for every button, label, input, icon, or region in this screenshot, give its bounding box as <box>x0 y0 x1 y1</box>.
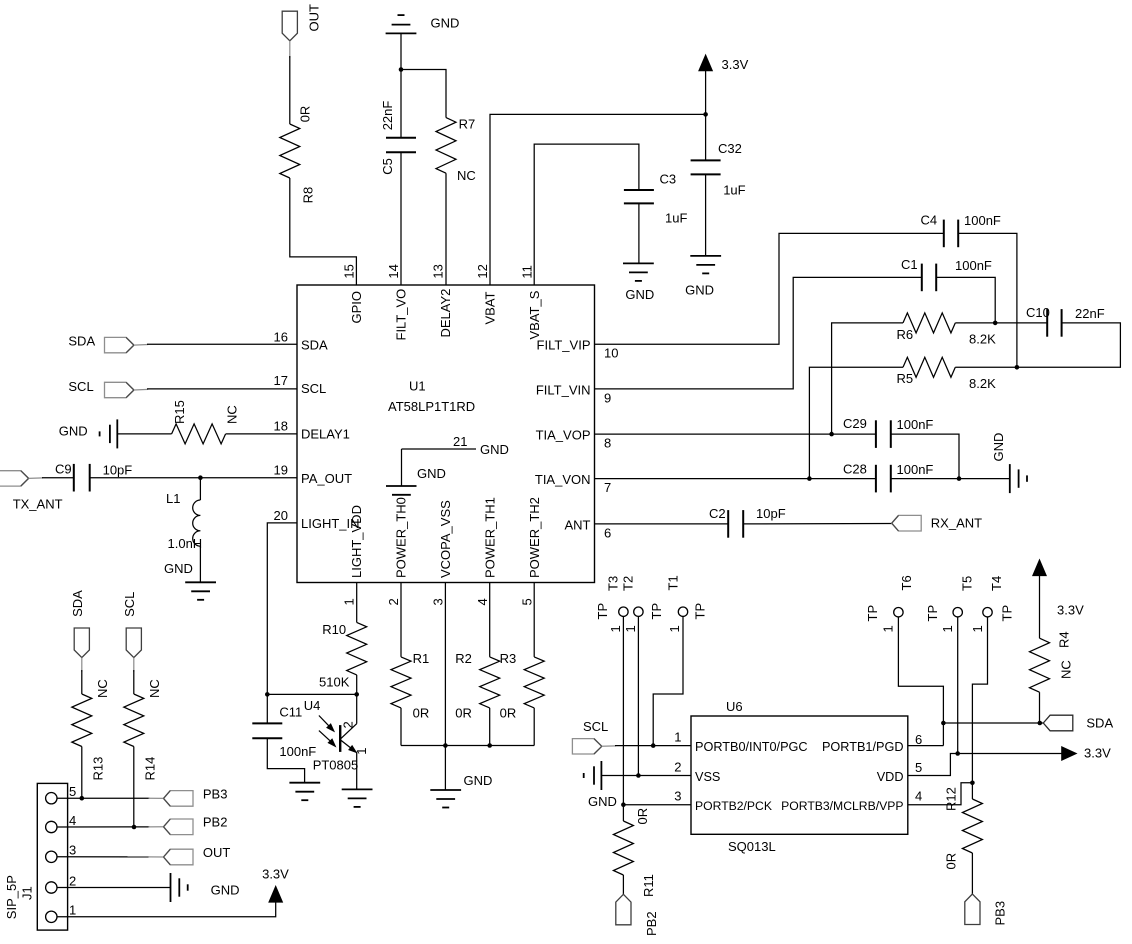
wire J1 pin5 to PB3 <box>57 797 150 799</box>
wire R6 left <box>832 323 903 434</box>
wire R5 left <box>809 367 903 478</box>
wire J1 pin4 to PB2 <box>57 826 150 828</box>
junction T3-pin3 <box>621 802 626 807</box>
capacitor C9 <box>55 462 132 492</box>
wire R15 to pin18 <box>226 433 297 435</box>
svg-text:T2: T2 <box>621 576 636 591</box>
svg-text:11: 11 <box>520 265 535 279</box>
junction R14-pin4 <box>132 825 137 830</box>
svg-text:NC: NC <box>95 679 110 698</box>
svg-text:3: 3 <box>674 789 681 804</box>
wire pin5 to R3 <box>533 583 535 657</box>
svg-text:GND: GND <box>685 283 714 298</box>
connector J1 SIP_5P <box>4 783 68 930</box>
wire C29 to node <box>891 434 959 479</box>
svg-text:1: 1 <box>881 625 896 632</box>
svg-text:1: 1 <box>608 625 623 632</box>
capacitor C2 <box>709 506 786 538</box>
resistor R5 <box>897 357 997 391</box>
svg-text:TX_ANT: TX_ANT <box>13 497 63 512</box>
U1 left pin numbers 16-20 <box>274 329 288 523</box>
svg-text:R8: R8 <box>301 187 316 204</box>
port SCL (R14) <box>122 592 141 658</box>
svg-text:C5: C5 <box>380 158 395 175</box>
svg-text:SDA: SDA <box>1086 716 1113 731</box>
svg-text:8: 8 <box>604 436 611 451</box>
svg-text:OUT: OUT <box>203 845 231 860</box>
svg-text:6: 6 <box>604 526 611 541</box>
wire C3 to ground <box>638 203 640 263</box>
power 3.3V top <box>699 55 749 114</box>
wire C28 to ground <box>891 478 1010 480</box>
power 3.3V VDD <box>1062 746 1111 761</box>
wire C10 loop <box>1017 323 1121 367</box>
resistor R12 <box>944 783 983 894</box>
ground below C11 <box>289 782 320 784</box>
wire pin20 down <box>267 523 297 695</box>
svg-text:PB3: PB3 <box>993 901 1008 926</box>
port PB2 (J1) <box>164 815 228 835</box>
svg-text:GND: GND <box>480 442 509 457</box>
resistor R15 <box>172 400 240 444</box>
port SDA (R4) <box>1043 715 1113 731</box>
op-amp U6 SQ013L body <box>691 699 908 854</box>
svg-text:R1: R1 <box>413 651 430 666</box>
svg-text:PORTB1/PGD: PORTB1/PGD <box>822 740 904 754</box>
port PB2 (R11) <box>616 894 659 936</box>
svg-text:SIP_5P: SIP_5P <box>4 875 19 919</box>
J1 pin circle 3 <box>46 851 57 862</box>
svg-text:R11: R11 <box>641 874 656 897</box>
svg-text:1uF: 1uF <box>723 182 745 197</box>
wire T6 to pin6 <box>898 617 943 746</box>
svg-text:0R: 0R <box>635 808 650 825</box>
light arrow 1 <box>319 716 334 732</box>
wire pin8 to C29 <box>595 433 876 435</box>
junction T6-SDA <box>941 721 946 726</box>
svg-text:4: 4 <box>915 789 922 804</box>
svg-text:510K: 510K <box>319 675 350 690</box>
capacitor C5 <box>380 101 416 175</box>
U6 pin numbers <box>674 730 922 804</box>
wire pin6 to C2 <box>595 523 729 525</box>
resistor R1 <box>391 651 429 721</box>
svg-text:C29: C29 <box>843 416 867 431</box>
junction C4-R5 <box>1015 365 1020 370</box>
svg-text:FILT_VIP: FILT_VIP <box>537 337 591 352</box>
wire pin2 to R1 <box>400 583 402 657</box>
svg-text:OUT: OUT <box>307 4 322 32</box>
svg-text:16: 16 <box>274 329 288 344</box>
svg-text:4: 4 <box>475 598 490 605</box>
svg-text:SDA: SDA <box>301 338 328 353</box>
wire R6 right to C10 <box>955 322 1047 324</box>
test point T6 <box>865 575 914 632</box>
svg-text:20: 20 <box>274 508 288 523</box>
capacitor C10 <box>1026 305 1105 337</box>
svg-text:FILT_VO: FILT_VO <box>394 289 409 341</box>
capacitor C4 <box>921 213 1001 248</box>
svg-text:18: 18 <box>274 418 288 433</box>
junction R6-pin8 <box>829 432 834 437</box>
svg-text:2: 2 <box>674 760 681 775</box>
svg-text:NC: NC <box>1059 660 1074 679</box>
wire T2 down <box>637 616 639 775</box>
ground below C3 <box>623 263 654 302</box>
svg-text:C10: C10 <box>1026 305 1050 320</box>
wire R3 to bus <box>533 708 535 746</box>
ground below C32 <box>685 256 721 298</box>
svg-text:2: 2 <box>340 721 355 728</box>
svg-text:T3: T3 <box>606 576 621 591</box>
wire R14 to pin4 <box>133 747 135 828</box>
resistor R10 <box>319 622 367 690</box>
svg-text:10pF: 10pF <box>756 506 786 521</box>
port OUT (J1) <box>164 845 231 865</box>
junction T5-VDD <box>955 751 960 756</box>
U1 top pin numbers 11-15 <box>341 264 534 278</box>
wire C9 to pin19 <box>90 477 297 479</box>
wire flag to R14 <box>133 670 135 694</box>
wire junction to R10 <box>267 693 356 695</box>
ground right (TIA) <box>991 433 1027 493</box>
svg-text:SDA: SDA <box>68 334 95 349</box>
wire SCL stub <box>134 388 148 391</box>
wire R13 to pin5 <box>81 747 83 799</box>
svg-text:1: 1 <box>674 730 681 745</box>
svg-text:GPIO: GPIO <box>349 291 364 324</box>
svg-text:SCL: SCL <box>122 592 137 617</box>
wire R4 to SDA row <box>1039 692 1041 723</box>
resistor R2 <box>455 651 499 721</box>
wire SCL U6 stub <box>602 745 616 747</box>
svg-text:TIA_VOP: TIA_VOP <box>536 427 591 442</box>
junction T4-R12 <box>970 781 975 786</box>
ground below U4 <box>342 788 373 790</box>
wire R5 right <box>955 366 1017 368</box>
svg-text:13: 13 <box>431 264 446 278</box>
svg-text:3: 3 <box>69 843 76 858</box>
J1 pin numbers <box>69 784 76 918</box>
wire gnd to pin2 <box>601 775 691 777</box>
wire flag to R13 <box>81 670 83 694</box>
op-amp U1 AT58LP1T1RD body <box>297 285 595 583</box>
svg-text:C11: C11 <box>279 705 302 720</box>
svg-text:VDD: VDD <box>877 770 904 784</box>
resistor R3 <box>500 651 545 721</box>
resistor R14 <box>124 679 162 780</box>
U1 top pin names <box>349 289 542 341</box>
wire PB3 stub <box>149 797 164 799</box>
svg-text:1: 1 <box>623 625 638 632</box>
svg-text:5: 5 <box>520 598 535 605</box>
junction T2-pin2 <box>636 773 641 778</box>
svg-text:0R: 0R <box>413 706 430 721</box>
J1 pin circle 2 <box>46 882 57 893</box>
wire J1 pin1 to 3.3V <box>57 902 276 917</box>
svg-text:NC: NC <box>225 405 240 424</box>
wire TX_ANT stub <box>29 477 43 480</box>
svg-text:POWER_TH2: POWER_TH2 <box>527 497 542 578</box>
svg-text:1: 1 <box>341 598 356 605</box>
svg-text:3.3V: 3.3V <box>1084 746 1111 761</box>
port PB3 (R12) <box>965 894 1008 926</box>
svg-text:NC: NC <box>147 679 162 698</box>
wire T3 down <box>622 616 624 804</box>
svg-text:SDA: SDA <box>70 590 85 617</box>
test point T1 <box>666 575 708 632</box>
capacitor C1 <box>901 257 992 291</box>
wire pin10 to C4 <box>595 233 944 344</box>
svg-text:1: 1 <box>940 625 955 632</box>
svg-text:POWER_TH1: POWER_TH1 <box>483 497 498 578</box>
svg-text:1: 1 <box>667 625 682 632</box>
svg-text:3.3V: 3.3V <box>262 867 289 882</box>
svg-text:T6: T6 <box>899 575 914 590</box>
wire pin11 to C3 <box>534 144 639 285</box>
svg-text:2: 2 <box>386 598 401 605</box>
port OUT (top) <box>282 4 321 41</box>
svg-text:VSS: VSS <box>695 770 720 784</box>
svg-text:PORTB3/MCLRB/VPP: PORTB3/MCLRB/VPP <box>781 799 903 813</box>
svg-text:3.3V: 3.3V <box>1057 603 1084 618</box>
svg-text:C32: C32 <box>718 141 742 156</box>
junction R5-pin7 <box>807 476 812 481</box>
svg-text:VCOPA_VSS: VCOPA_VSS <box>438 500 453 578</box>
svg-text:GND: GND <box>588 794 617 809</box>
wire OUT to R8 <box>289 56 291 124</box>
svg-text:LIGHT_VDD: LIGHT_VDD <box>349 505 364 578</box>
wire OUT stub <box>289 41 291 58</box>
svg-text:GND: GND <box>625 287 654 302</box>
svg-text:3: 3 <box>431 598 446 605</box>
wire junction to R7 <box>401 70 446 118</box>
svg-text:TP: TP <box>595 603 610 620</box>
svg-text:0R: 0R <box>500 706 517 721</box>
svg-text:U1: U1 <box>409 379 426 394</box>
svg-text:T4: T4 <box>989 576 1004 591</box>
wire gnd to C5 <box>400 33 402 137</box>
svg-text:0R: 0R <box>944 853 959 870</box>
svg-text:C2: C2 <box>709 506 726 521</box>
power 3.3V R4 <box>1033 560 1084 618</box>
svg-text:7: 7 <box>604 480 611 495</box>
capacitor C3 <box>624 171 688 225</box>
svg-text:DELAY2: DELAY2 <box>438 289 453 338</box>
svg-text:SCL: SCL <box>301 381 326 396</box>
light arrow 2 <box>319 731 336 747</box>
resistor R4 <box>1030 631 1074 692</box>
svg-text:100nF: 100nF <box>955 258 992 273</box>
svg-text:PT0805: PT0805 <box>313 758 359 773</box>
wire C11 to ground <box>267 738 304 783</box>
svg-text:R15: R15 <box>172 400 187 424</box>
wire pin3 left <box>623 804 691 806</box>
junction R10 bottom <box>354 692 359 697</box>
svg-text:PB2: PB2 <box>203 815 228 830</box>
junction R4-SDA <box>1038 721 1043 726</box>
svg-text:L1: L1 <box>166 491 180 506</box>
wire C4 to node <box>958 233 1017 367</box>
wire SDA flag stub <box>81 658 83 672</box>
capacitor C11 <box>252 694 316 759</box>
svg-text:PB3: PB3 <box>203 787 228 802</box>
wire SDA to pin16 <box>147 343 297 345</box>
wire J1 pin2 to ground <box>57 887 171 889</box>
svg-text:C1: C1 <box>901 257 918 272</box>
wire pin4 jog <box>908 783 972 805</box>
svg-text:10: 10 <box>604 346 618 361</box>
wire T4 down <box>972 617 987 783</box>
test point T3 <box>595 576 628 633</box>
svg-text:6: 6 <box>915 732 922 747</box>
svg-text:R4: R4 <box>1057 631 1072 648</box>
ground internal U1 <box>386 466 446 495</box>
junction A <box>399 67 404 72</box>
junction bus 2 <box>487 743 492 748</box>
ground below R1-R3 <box>430 773 492 808</box>
svg-text:TP: TP <box>693 603 708 620</box>
port TX_ANT <box>0 471 63 512</box>
svg-text:TP: TP <box>649 603 664 620</box>
port SDA (left) <box>68 334 133 353</box>
U1 bottom pin names <box>349 497 542 578</box>
svg-text:R12: R12 <box>944 787 959 811</box>
resistor R6 <box>897 313 997 347</box>
transistor U4 PT0805 <box>304 694 369 772</box>
ground J1 pin2 <box>171 873 240 902</box>
svg-text:GND: GND <box>211 882 240 897</box>
U1 right pin numbers 6-10 <box>604 346 618 541</box>
junction C29-C28 <box>957 476 962 481</box>
svg-text:C9: C9 <box>55 462 72 477</box>
svg-text:3.3V: 3.3V <box>722 57 749 72</box>
U1 right pin names <box>535 337 591 532</box>
svg-text:R14: R14 <box>143 757 158 781</box>
svg-text:1uF: 1uF <box>665 210 687 225</box>
test point T2 <box>621 576 665 633</box>
svg-text:SQ013L: SQ013L <box>728 839 776 854</box>
svg-text:22nF: 22nF <box>1075 306 1105 321</box>
svg-text:R5: R5 <box>897 371 914 386</box>
svg-text:GND: GND <box>464 773 493 788</box>
svg-text:ANT: ANT <box>565 518 591 533</box>
svg-text:9: 9 <box>604 391 611 406</box>
resistor R11 <box>613 805 656 897</box>
wire U4 emitter to ground <box>356 753 358 790</box>
capacitor C29 <box>843 416 933 448</box>
svg-text:RX_ANT: RX_ANT <box>931 516 982 531</box>
svg-text:R6: R6 <box>897 327 914 342</box>
wire R1 to bus <box>400 708 402 746</box>
svg-text:C3: C3 <box>660 171 677 186</box>
svg-text:GND: GND <box>417 466 446 481</box>
wire PB2 stub <box>149 826 164 828</box>
svg-text:TP: TP <box>925 605 940 622</box>
junction R13-pin5 <box>80 796 85 801</box>
wire R10 to junction <box>356 675 358 695</box>
svg-text:AT58LP1T1RD: AT58LP1T1RD <box>388 399 475 414</box>
svg-text:100nF: 100nF <box>897 417 934 432</box>
svg-text:U4: U4 <box>304 698 321 713</box>
wire pin7 to C28 <box>595 478 876 480</box>
svg-text:SCL: SCL <box>68 379 93 394</box>
svg-text:SCL: SCL <box>583 719 608 734</box>
ground below L1 <box>164 561 216 600</box>
junction VBAT <box>703 112 708 117</box>
svg-text:1: 1 <box>69 903 76 918</box>
wire pin21 GND <box>402 448 477 450</box>
svg-text:0R: 0R <box>455 706 472 721</box>
ground U6 VSS <box>584 761 617 809</box>
junction bus 1 <box>443 743 448 748</box>
wire pin9 to C1 <box>595 277 922 389</box>
U6 pin names <box>695 740 904 813</box>
svg-text:R10: R10 <box>322 622 346 637</box>
svg-text:PORTB0/INT0/PGC: PORTB0/INT0/PGC <box>695 740 808 754</box>
wire pin12 to 3.3V node <box>490 114 706 285</box>
svg-text:PB2: PB2 <box>644 911 659 936</box>
ground left (DELAY1) <box>59 419 118 448</box>
port SCL (U6) <box>572 719 608 754</box>
svg-text:PA_OUT: PA_OUT <box>301 471 352 486</box>
wire VDD to 3.3V arrow <box>908 754 1062 776</box>
wire T1 down <box>653 616 683 745</box>
wire T5 down <box>957 617 959 754</box>
junction PA_OUT <box>198 475 203 480</box>
capacitor C32 <box>691 114 746 256</box>
wire C2 to RX_ANT <box>743 523 892 525</box>
svg-text:15: 15 <box>341 264 356 278</box>
wire SDA stub <box>134 344 148 347</box>
junction C11 top <box>265 692 270 697</box>
svg-text:PORTB2/PCK: PORTB2/PCK <box>695 799 772 813</box>
svg-text:GND: GND <box>991 433 1006 462</box>
port SDA (R13) <box>70 590 89 658</box>
svg-text:POWER_TH0: POWER_TH0 <box>394 497 409 578</box>
wire pin4 to R2 <box>489 583 491 657</box>
svg-text:5: 5 <box>69 784 76 799</box>
svg-text:C4: C4 <box>921 213 938 228</box>
svg-text:T1: T1 <box>666 575 681 590</box>
power 3.3V J1 <box>262 867 289 903</box>
svg-text:4: 4 <box>69 813 76 828</box>
svg-text:R7: R7 <box>459 117 476 132</box>
wire SCL to pin1 <box>615 745 691 747</box>
svg-text:U6: U6 <box>726 699 743 714</box>
svg-text:22nF: 22nF <box>380 101 395 131</box>
junction T1-pin1 <box>651 743 656 748</box>
svg-text:100nF: 100nF <box>964 213 1001 228</box>
svg-text:R3: R3 <box>500 651 517 666</box>
wire pin6 stub <box>908 745 943 747</box>
wire pin1 to R10 <box>356 583 358 623</box>
wire J1 pin3 to OUT <box>57 856 150 858</box>
svg-text:17: 17 <box>274 373 288 388</box>
capacitor C28 <box>843 461 933 492</box>
wire L1 to ground <box>199 546 201 582</box>
svg-text:1: 1 <box>970 625 985 632</box>
ground top (above C5) <box>386 15 460 33</box>
svg-text:DELAY1: DELAY1 <box>301 427 350 442</box>
svg-text:T5: T5 <box>960 576 975 591</box>
wire resistor bus <box>401 745 534 747</box>
U1 bottom pin numbers 1-5 <box>341 598 534 605</box>
J1 pin circle 1 <box>46 911 57 922</box>
wire pin3 down <box>444 583 446 746</box>
wire TX_ANT to C9 <box>42 477 74 479</box>
port PB3 (J1) <box>164 787 228 807</box>
